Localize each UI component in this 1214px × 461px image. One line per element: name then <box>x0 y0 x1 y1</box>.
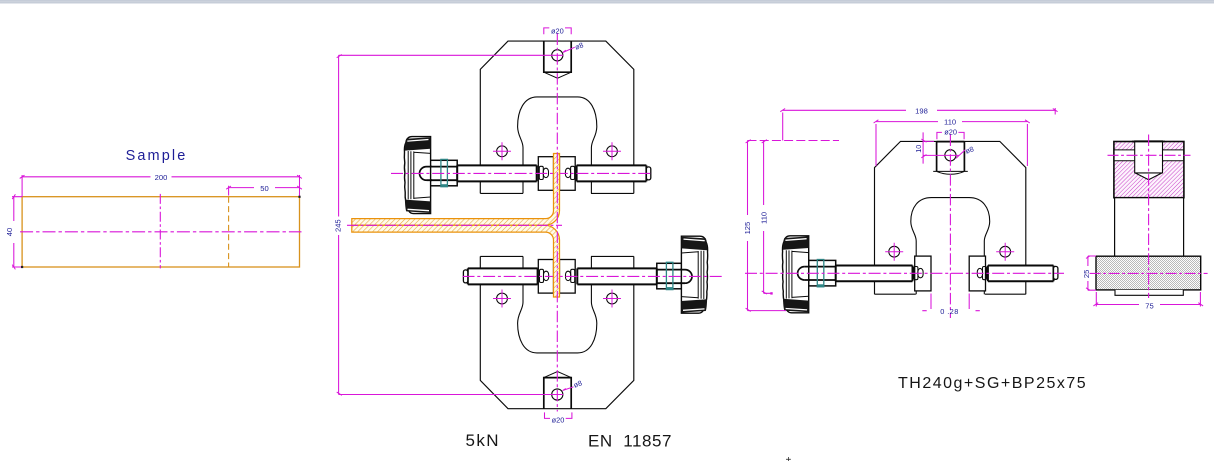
dimension 40 line <box>12 197 22 267</box>
svg-text:ø20: ø20 <box>944 127 957 136</box>
side bolt axis centerline <box>745 272 1064 274</box>
dimension 200 line <box>22 175 299 197</box>
column <box>1115 198 1184 257</box>
side boss bottom arc <box>933 171 968 174</box>
svg-text:10: 10 <box>914 145 923 153</box>
svg-text:125: 125 <box>743 222 752 235</box>
lower boss chamfer V <box>544 372 571 378</box>
specimen lower strip (bent down) <box>352 225 560 297</box>
upper bolt hub <box>430 160 457 186</box>
base plate centerline <box>1090 272 1208 274</box>
lower knob (knurled, right) <box>681 236 707 313</box>
main vertical centerline <box>556 34 558 412</box>
svg-text:25: 25 <box>1082 270 1091 278</box>
upper bolt axis centerline <box>391 172 652 174</box>
lower clamp body <box>480 256 634 408</box>
upper knob (knurled, left) <box>404 137 430 214</box>
side jaw plates <box>915 256 931 291</box>
lower bolt neck in hub <box>657 270 685 284</box>
upper boss <box>544 41 571 72</box>
sample bar outline <box>22 197 299 267</box>
svg-text:245: 245 <box>334 219 343 232</box>
upper bolt shaft (left, from knob) <box>457 165 537 181</box>
leader ø8 upper <box>563 47 575 52</box>
lower bolt shaft (right, from knob) <box>577 268 657 284</box>
upper right hole <box>607 146 618 157</box>
side arch cutout <box>911 198 990 295</box>
svg-text:110: 110 <box>944 118 956 127</box>
upper boss chamfer V <box>544 72 571 78</box>
sample bar grip line (orange dashed) <box>228 197 230 267</box>
side knob (knurled, left) <box>782 236 808 313</box>
dimension 110 width line <box>876 122 1027 166</box>
upper jaw plates <box>538 157 553 191</box>
corner node dots <box>298 196 300 198</box>
lower bolt axis centerline <box>463 275 724 277</box>
upper boss hole ø8 <box>552 50 563 61</box>
upper bolt tip pads <box>539 166 543 179</box>
lower bolt hub teal washer <box>666 262 673 289</box>
svg-text:50: 50 <box>260 184 268 193</box>
dimension 245 extension bottom <box>339 394 564 396</box>
dimension 110 vertical line <box>764 141 772 294</box>
dimension 50 line <box>229 186 300 196</box>
side right hole <box>1000 246 1011 257</box>
grip block (hatched section) <box>1114 142 1184 198</box>
dimension 10 <box>923 132 959 163</box>
svg-text:ø20: ø20 <box>551 26 564 35</box>
svg-text:0 .28: 0 .28 <box>940 307 958 316</box>
side hub teal washer <box>817 260 824 287</box>
svg-text:40: 40 <box>5 228 14 236</box>
svg-text:ø20: ø20 <box>552 415 565 424</box>
svg-text:Sample: Sample <box>126 148 188 164</box>
dimension 75 line <box>1096 292 1201 307</box>
upper bolt neck in hub <box>427 167 458 181</box>
dimension 125 line <box>748 141 787 311</box>
base plate BP25x75 <box>1096 256 1201 290</box>
lower bolt rod end cap <box>463 270 467 283</box>
grip slot <box>1135 141 1163 180</box>
upper bolt hub teal washer <box>441 159 448 186</box>
side bolt dome end in knob <box>798 267 805 280</box>
side bolt neck in hub <box>805 267 836 280</box>
left extension dashed line <box>748 140 840 142</box>
dimension ø20 side bracket <box>937 132 964 139</box>
dimension 245 extension top <box>339 54 564 56</box>
upper bolt right rod <box>577 165 647 181</box>
dimension 25 line <box>1088 256 1096 290</box>
dimension ø20 upper bracket <box>544 28 571 34</box>
side vertical centerline <box>949 135 951 319</box>
lower jaw plates <box>538 260 553 294</box>
lower bolt dome end in knob <box>685 270 692 284</box>
side right bolt rod <box>988 266 1054 282</box>
svg-text:+: + <box>786 455 792 461</box>
leader ø8 side <box>956 150 965 158</box>
upper clamp arch cutout <box>518 97 597 193</box>
sample bar horizontal centerline <box>20 231 301 233</box>
lower bolt left rod pads <box>544 271 549 280</box>
pin hole band <box>1115 150 1183 161</box>
part vertical centerline <box>1148 135 1150 299</box>
side left bolt shaft <box>836 266 913 282</box>
side boss <box>937 141 965 171</box>
dimension 198 line <box>783 108 1055 141</box>
lower bolt left rod <box>468 268 538 284</box>
lower boss <box>544 378 571 409</box>
top window bar <box>0 0 1214 2</box>
side right bolt pads <box>977 268 982 277</box>
upper bolt dome end in knob <box>420 167 427 181</box>
upper clamp body <box>480 41 634 193</box>
svg-text:200: 200 <box>155 173 168 182</box>
dimension ø20 lower bracket <box>545 412 572 418</box>
lower left hole <box>497 293 508 304</box>
side right bolt end cap <box>1054 266 1058 279</box>
specimen bond centerline <box>347 224 562 226</box>
lower bolt tip pads <box>571 269 575 282</box>
lower bolt hub <box>657 263 682 289</box>
pin hole centerline <box>1108 154 1191 156</box>
lower clamp arch cutout <box>518 256 597 353</box>
svg-text:75: 75 <box>1145 301 1153 310</box>
side boss hole ø8 <box>945 150 956 161</box>
upper bolt right rod pads <box>565 168 570 177</box>
grip block top edge over slot <box>1132 141 1165 143</box>
specimen upper strip (bent up) <box>352 154 560 226</box>
svg-text:198: 198 <box>915 107 928 116</box>
side bolt hub <box>809 260 836 286</box>
svg-text:110: 110 <box>759 212 768 224</box>
side hole centermarks <box>885 243 1014 261</box>
svg-text:5kN: 5kN <box>466 431 500 450</box>
side left bolt tip pads <box>914 267 918 280</box>
dimension 245 line <box>338 55 340 394</box>
gap dimension extension lines <box>922 294 980 311</box>
side left hole <box>889 246 900 257</box>
upper bolt rod end cap <box>646 167 650 180</box>
upper left hole <box>497 146 508 157</box>
leader ø8 lower <box>563 387 574 391</box>
side body <box>875 141 1026 294</box>
svg-text:TH240g+SG+BP25x75: TH240g+SG+BP25x75 <box>898 375 1087 392</box>
lower right hole <box>607 293 618 304</box>
sample bar vertical centerline <box>159 194 161 269</box>
column stub below plate <box>1115 290 1183 295</box>
lower boss hole ø8 <box>552 389 563 400</box>
svg-text:EN 11857: EN 11857 <box>588 432 672 451</box>
hole centermark crosses <box>493 142 621 307</box>
